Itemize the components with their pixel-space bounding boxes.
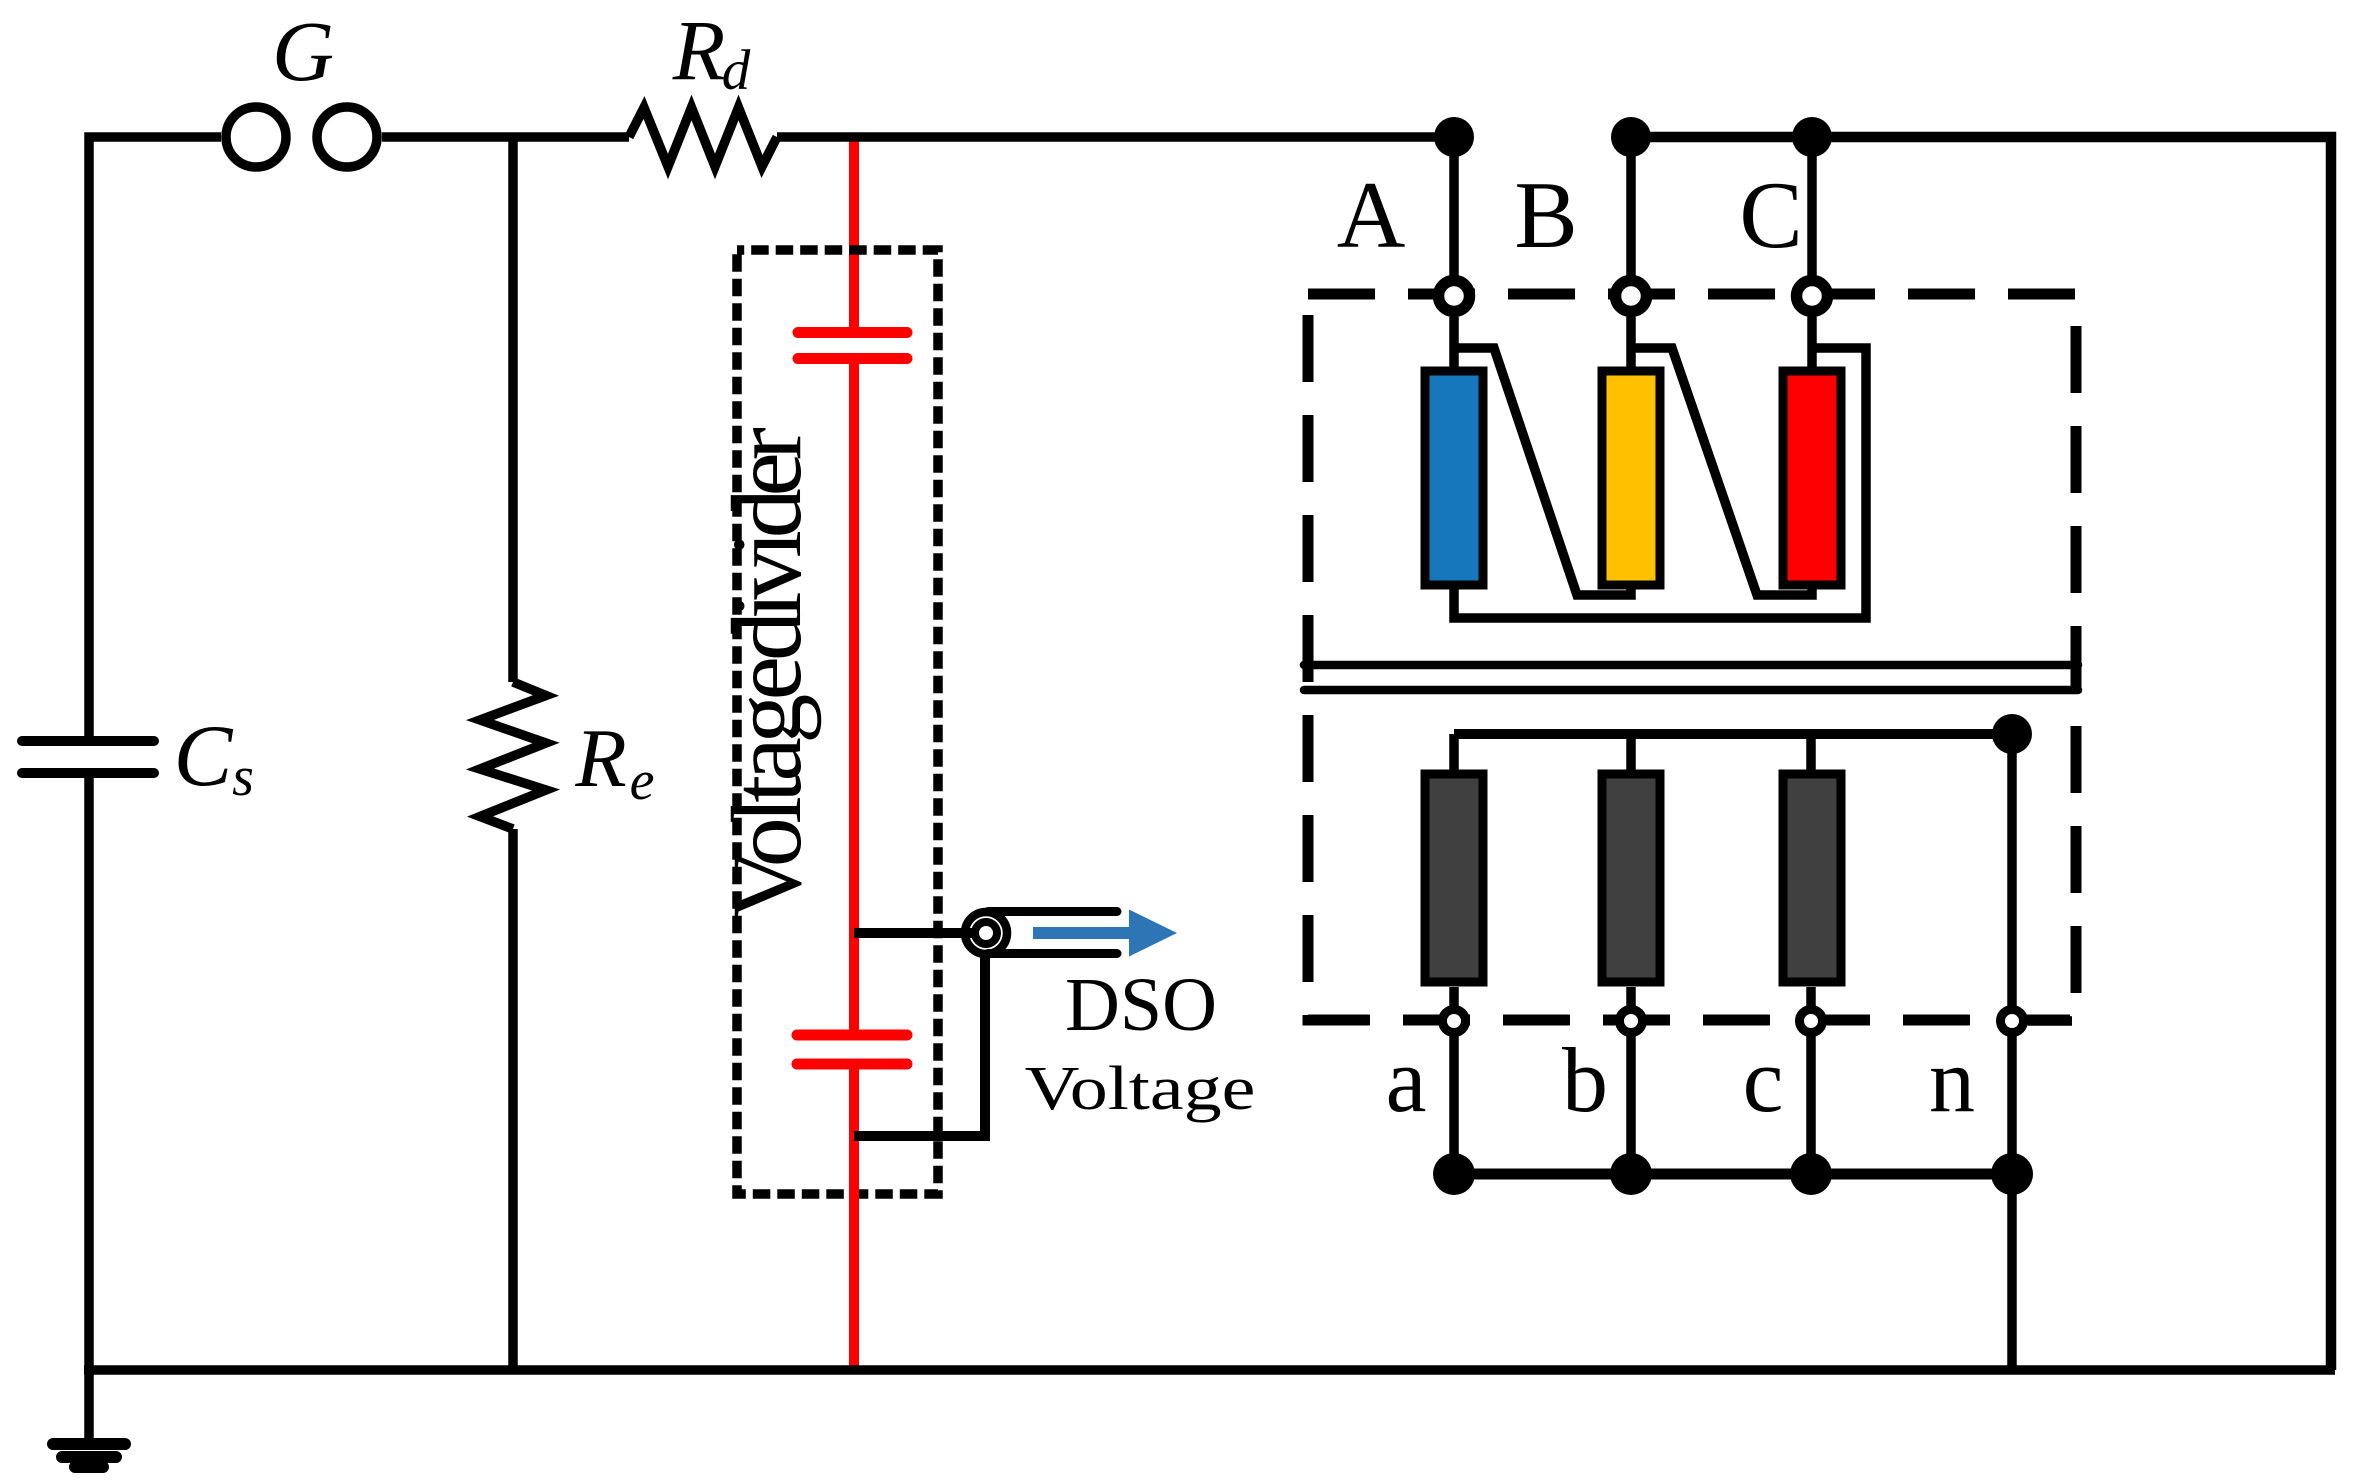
wire: A terminal to winding — [1449, 317, 1459, 367]
wire: red HV line upper segment — [849, 137, 859, 332]
wire: terminal c down — [1806, 1035, 1816, 1174]
secondary winding c (gray) — [1783, 774, 1841, 982]
svg-text:a: a — [1386, 1029, 1427, 1131]
wire: bottom return bus — [84, 1365, 2335, 1375]
ground symbol — [53, 1444, 125, 1467]
wire: phase A drop — [1449, 137, 1459, 276]
wire: n drop from bus — [2007, 734, 2017, 1007]
terminal B — [1616, 281, 1647, 312]
transformer dashed enclosure — [1308, 294, 2076, 1020]
wire: spark gap to Rd — [382, 132, 629, 142]
svg-text:R: R — [574, 712, 626, 805]
svg-text:G: G — [272, 3, 334, 99]
svg-text:s: s — [232, 746, 254, 808]
junction node n top — [1992, 714, 2032, 754]
svg-text:n: n — [1929, 1029, 1975, 1131]
svg-text:C: C — [1739, 162, 1802, 268]
DSO signal arrow (blue) — [1033, 927, 1131, 939]
primary winding C (red) — [1783, 371, 1841, 585]
wire: Re branch top — [508, 137, 518, 682]
terminal n — [2001, 1010, 2024, 1033]
svg-text:B: B — [1514, 162, 1577, 268]
junction node A — [1434, 117, 1474, 157]
svg-text:d: d — [722, 39, 751, 102]
wire: Re branch bottom — [508, 829, 518, 1370]
svg-text:Voltage: Voltage — [1025, 1054, 1256, 1123]
terminal A — [1439, 281, 1470, 312]
wire: terminal n down to bottom bus — [2007, 1035, 2017, 1370]
junction a — [1433, 1153, 1475, 1195]
junction node B — [1611, 117, 1651, 157]
junction node C — [1792, 117, 1832, 157]
voltage divider dashed box — [737, 250, 938, 1194]
wire: node B to top-right corner and right side down — [1631, 137, 2331, 1370]
wire: winding c to terminal c — [1806, 987, 1816, 1007]
wire: ground stem — [84, 1370, 94, 1438]
resistor Re — [480, 682, 546, 829]
capacitor C2 (divider bottom, red) — [797, 1035, 907, 1064]
wire: secondary bus — [1454, 729, 2012, 739]
capacitor Cs — [22, 741, 154, 773]
spark gap G electrode 2 — [317, 107, 377, 167]
coax connector inner pin — [975, 922, 997, 944]
coax cable shield lines — [988, 912, 1117, 954]
transformer core — [1304, 665, 2078, 690]
svg-text:divider: divider — [711, 427, 822, 661]
coax connector outer — [965, 912, 1007, 954]
junction c — [1790, 1153, 1832, 1195]
svg-text:C: C — [174, 708, 234, 805]
junction n — [1991, 1153, 2033, 1195]
wire: C terminal to winding — [1807, 317, 1817, 367]
terminal C — [1797, 281, 1828, 312]
wire: phase C drop — [1807, 137, 1817, 276]
delta link winding B top to winding C bottom — [1631, 348, 1812, 595]
svg-text:A: A — [1337, 162, 1406, 268]
wire: B terminal to winding — [1626, 317, 1636, 367]
secondary winding b (gray) — [1602, 774, 1660, 982]
svg-text:DSO: DSO — [1065, 963, 1217, 1047]
svg-text:e: e — [630, 750, 655, 812]
resistor Rd — [629, 108, 777, 167]
svg-text:b: b — [1562, 1029, 1608, 1131]
wire: top-left and left branch upper — [89, 137, 221, 736]
svg-text:R: R — [672, 2, 726, 98]
wire: winding a to terminal a — [1449, 987, 1459, 1007]
wire: Rd to node A — [777, 132, 1454, 142]
delta link winding C top to winding A bottom — [1454, 348, 1866, 618]
wire: terminal b down — [1626, 1035, 1636, 1174]
primary winding A (blue) — [1425, 371, 1483, 585]
wire: phase B drop — [1626, 137, 1636, 276]
primary winding B (yellow) — [1602, 371, 1660, 585]
secondary winding a (gray) — [1425, 774, 1483, 982]
terminal b — [1620, 1010, 1643, 1033]
wire: n terminal stub right — [2028, 1016, 2072, 1026]
wire: divider low-side tap to coax shield — [854, 957, 985, 1141]
spark gap G electrode 1 — [226, 107, 286, 167]
wire: secondary stub c — [1806, 734, 1816, 770]
delta link winding A top to winding B bottom — [1454, 348, 1631, 595]
wire: secondary stub b — [1626, 734, 1636, 770]
wire: terminal a down — [1449, 1035, 1459, 1174]
svg-text:Voltage: Voltage — [711, 656, 822, 920]
terminal a — [1443, 1010, 1466, 1033]
junction b — [1610, 1153, 1652, 1195]
wire: winding b to terminal b — [1626, 987, 1636, 1007]
wire: left branch lower — [84, 778, 94, 1370]
wire: red HV line lower segments — [849, 359, 859, 1370]
capacitor C1 (divider top, red) — [798, 333, 907, 359]
wire: secondary stub a — [1449, 734, 1459, 770]
svg-text:c: c — [1743, 1029, 1784, 1131]
terminal c — [1800, 1010, 1823, 1033]
wire: divider tap to coax core — [854, 928, 982, 938]
wire: secondary neutral bus — [1454, 1169, 2012, 1180]
